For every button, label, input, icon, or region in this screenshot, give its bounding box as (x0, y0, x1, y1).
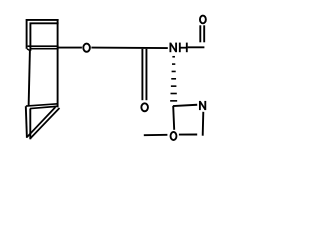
triangle front hypotenuse (30, 108, 59, 139)
cage front-bottom edge (30, 48, 59, 50)
carbamate C=O double bond line 1 (141, 49, 143, 100)
carbamate C=O double bond line 2 (145, 49, 147, 100)
cage corner connector diagonal (27, 49, 30, 51)
NH label: letter N (170, 43, 176, 53)
cage front-top edge (30, 22, 59, 24)
triangle back-top edge (26, 104, 58, 106)
triangle back-left vertical (26, 106, 27, 138)
cage back-top edge (26, 19, 59, 21)
cage right vertical (57, 19, 59, 107)
ester O letter (83, 44, 90, 52)
carbamate O letter (141, 103, 148, 111)
triangle front-top edge (30, 106, 58, 108)
cage front-left vertical (29, 23, 31, 51)
ring right edge N-CH2 (202, 112, 205, 136)
bond cage to ester O (58, 47, 82, 49)
methyl bond on ring O (144, 134, 168, 136)
NH label: letter H (180, 43, 187, 53)
formyl O letter (200, 16, 206, 24)
cage back-bottom edge (28, 45, 59, 47)
triangle front-left vertical (29, 109, 31, 140)
bond NH to formyl C (188, 46, 205, 48)
cage back-left vertical (26, 19, 28, 49)
ring left edge C-O (173, 106, 174, 130)
triangle back hypotenuse (27, 107, 55, 137)
formyl C=O double bond line 2 (203, 25, 205, 42)
cage middle-left vertical (29, 51, 30, 107)
ring N letter (200, 101, 205, 110)
formyl C=O double bond line 1 (199, 25, 201, 42)
ring O letter (171, 132, 177, 140)
hashed wedge NH to ring C (170, 57, 177, 101)
ring bottom edge O-CH2 (179, 134, 197, 136)
ring top edge C-N (173, 105, 197, 106)
bond ester O to carbonyl C to NH (91, 47, 167, 50)
